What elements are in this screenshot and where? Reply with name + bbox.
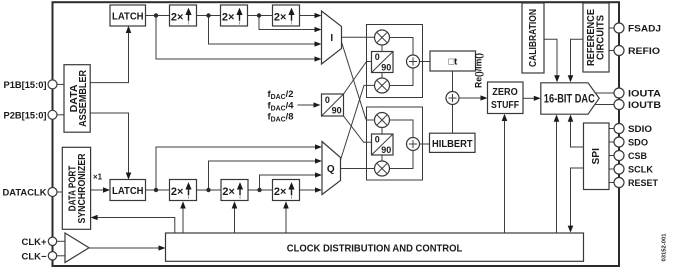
wire: SPI to RESET (609, 182, 614, 184)
wire: zero stuff to DAC (523, 96, 541, 101)
svg-text:IOUTA: IOUTA (628, 89, 661, 100)
wire: clock to Q 2x3 (283, 201, 289, 233)
wire: I row latch to 2x1 (146, 15, 170, 17)
wire: clock to zero stuff (502, 114, 508, 233)
wire: I row 2x3 to mux (300, 13, 322, 18)
interpolation filter 2x I-2 (221, 5, 248, 26)
wire: lower modulator internals (382, 120, 430, 169)
wire: clock feedback to synchronizer (91, 215, 175, 233)
wire: hilbert to mid adder (452, 105, 454, 135)
figure number (662, 233, 668, 262)
svg-text:CSB: CSB (628, 151, 647, 162)
clock input buffer (65, 233, 89, 263)
wire: P1B stub (57, 83, 65, 85)
terminal REFIO (614, 46, 661, 58)
hilbert block (430, 133, 476, 152)
terminal FSADJ (614, 23, 661, 35)
wire: SPI to SDIO (609, 128, 614, 130)
svg-text:Q: Q (327, 164, 335, 175)
svg-text:SDIO: SDIO (628, 124, 653, 135)
svg-text:0: 0 (375, 135, 380, 145)
SPI block (584, 123, 610, 190)
terminal SCLK (614, 164, 653, 176)
node J6 (257, 188, 261, 192)
wire: LO diagonal to lower 0/90 (344, 116, 372, 142)
svg-text:CLK−: CLK− (22, 251, 47, 262)
svg-text:90: 90 (381, 145, 391, 155)
svg-text:□t: □t (448, 57, 458, 68)
wire: reference to DAC (568, 39, 584, 82)
lower modulator enclosure (367, 107, 423, 180)
multiplier M1 (375, 30, 390, 45)
latch U2 (Q path) (110, 180, 146, 201)
svg-text:RESET: RESET (628, 178, 658, 189)
svg-text:SDO: SDO (628, 138, 649, 149)
wire: SPI to SDO (609, 141, 614, 143)
zero stuff block (488, 82, 524, 114)
wire: fDAC select arrow (298, 102, 321, 107)
wire: Q row 2x1 to 2x2 (197, 189, 222, 191)
wire: Q bypass from node J4 (156, 144, 322, 190)
svg-text:16-BIT DAC: 16-BIT DAC (544, 92, 595, 106)
wire: calibration to DAC (544, 39, 560, 82)
delta-t block (430, 51, 476, 71)
wire: I bypass from node J3 (259, 16, 322, 33)
wire: DAC to IOUTB (592, 104, 614, 106)
wire: mux I to upper multiplier (342, 36, 376, 38)
wire: I row 2x2 to 2x3 (248, 15, 273, 17)
svg-text:CIRCUITS: CIRCUITS (596, 15, 607, 60)
fDAC frequency labels (268, 89, 295, 124)
wire: CLK- stub (57, 255, 66, 257)
terminal CSB (614, 151, 647, 163)
svg-text:REFIO: REFIO (628, 46, 661, 57)
wire: Q row 2x2 to 2x3 (248, 189, 273, 191)
svg-text:×1: ×1 (93, 172, 102, 182)
calibration block (522, 3, 544, 73)
latch U1 (I path) (110, 5, 146, 26)
node J4 (154, 188, 158, 192)
wire: SPI to SCLK (609, 168, 614, 170)
svg-text:0: 0 (375, 52, 380, 62)
wire: Q row latch to 2x1 (146, 189, 170, 191)
svg-text:IOUTB: IOUTB (628, 100, 661, 111)
wire: CLK buffer to clock distribution (89, 245, 166, 250)
interpolation filter 2x Q-1 (170, 180, 197, 201)
adder A1 (407, 55, 420, 68)
svg-text:CLOCK DISTRIBUTION AND CONTROL: CLOCK DISTRIBUTION AND CONTROL (287, 244, 463, 255)
interpolation filter 2x Q-2 (221, 180, 248, 201)
wire: Q bypass from node J5 (209, 158, 323, 190)
node J5 (206, 188, 210, 192)
label Re()/Im() (474, 53, 484, 88)
multiplier M3 (375, 113, 390, 128)
16-bit DAC (541, 83, 599, 114)
mux Q (322, 142, 341, 195)
svg-text:CLK+: CLK+ (22, 237, 47, 248)
terminal RESET (614, 178, 658, 190)
upper modulator enclosure (367, 25, 423, 98)
label x1 gain (93, 172, 102, 182)
svg-text:P1B[15:0]: P1B[15:0] (4, 80, 47, 91)
node J3 (257, 13, 261, 17)
svg-text:ZERO: ZERO (492, 86, 518, 98)
svg-text:P2B[15:0]: P2B[15:0] (4, 110, 47, 121)
wire: SPI to DAC (568, 115, 584, 148)
svg-text:CALIBRATION: CALIBRATION (528, 9, 539, 67)
wire: CLK+ stub (57, 240, 66, 242)
svg-text:SCLK: SCLK (628, 165, 653, 176)
adder A3 (446, 92, 459, 105)
interpolation filter 2x I-3 (273, 5, 300, 26)
svg-text:90: 90 (332, 106, 342, 116)
svg-text:HILBERT: HILBERT (432, 138, 473, 150)
wire: Q row 2x3 to mux (300, 187, 323, 192)
svg-text:SYNCHRONIZER: SYNCHRONIZER (77, 153, 88, 224)
terminal P2B (4, 110, 58, 121)
svg-text:I: I (330, 33, 333, 44)
wire: DAC to IOUTA (592, 92, 614, 94)
wire: clock to Q 2x2 (232, 201, 238, 233)
wire: reference to FSADJ (609, 27, 614, 29)
multiplier M2 (375, 78, 390, 93)
wire: P2B stub (57, 114, 65, 116)
svg-text:Re()/Im(): Re()/Im() (474, 53, 484, 88)
wire: reference to REFIO (609, 50, 614, 52)
data assembler (64, 65, 90, 133)
node J2 (206, 13, 210, 17)
terminal P1B (4, 80, 58, 91)
wire: synchronizer to Q latch (91, 187, 110, 193)
terminal DATACLK (3, 188, 58, 199)
wire: clock to DAC (554, 115, 560, 234)
adder A2 (407, 138, 420, 151)
svg-text:SPI: SPI (591, 148, 602, 165)
terminal SDIO (614, 124, 653, 136)
svg-text:03152-001: 03152-001 (662, 233, 668, 262)
svg-text:0: 0 (325, 95, 330, 105)
wire: I bypass from node J2 (209, 16, 322, 47)
interpolation filter 2x Q-3 (273, 180, 300, 201)
wire: upper modulator internals (382, 38, 430, 86)
clock distribution and control block (166, 233, 584, 261)
terminal SDO (614, 137, 649, 149)
node J1 (154, 13, 158, 17)
wire: mux I diagonal to lower modulator (342, 42, 375, 120)
svg-text:LATCH: LATCH (112, 10, 144, 22)
wire: I row 2x1 to 2x2 (197, 15, 221, 17)
wire: I bypass from node J1 (156, 16, 322, 62)
wire: clock to Q 2x1 (180, 201, 186, 233)
terminal CLK- (22, 251, 57, 262)
phase splitter 0/90 LO (322, 94, 344, 116)
wire: Q bypass from node J6 (260, 172, 323, 190)
interpolation filter 2x I-1 (170, 5, 197, 26)
wire: mux Q to lower multiplier (341, 168, 376, 170)
wire: DATACLK stub (57, 191, 63, 193)
wire: SPI to clock distribution (568, 168, 584, 233)
reference circuits block (583, 3, 609, 72)
svg-text:STUFF: STUFF (491, 99, 519, 111)
svg-text:90: 90 (381, 63, 391, 73)
data port synchronizer (62, 147, 90, 229)
wire: SPI to CSB (609, 155, 614, 157)
terminal CLK+ (22, 237, 57, 248)
multiplier M4 (375, 161, 390, 176)
svg-text:LATCH: LATCH (112, 185, 144, 197)
terminal IOUTB (614, 100, 661, 112)
wire: mid adder to zero stuff (459, 95, 488, 100)
wire: data assembler to Q latch (90, 113, 131, 180)
terminal IOUTA (614, 88, 661, 100)
wire: data assembler to I latch (90, 26, 131, 83)
wire: mux Q diagonal to upper modulator (341, 85, 375, 160)
phase splitter 0/90 upper (372, 52, 394, 73)
mux I (322, 11, 342, 64)
wire: LO diagonal to upper 0/90 (344, 62, 372, 95)
svg-text:DATACLK: DATACLK (3, 188, 47, 199)
wire: delta-t to mid adder (452, 71, 454, 92)
svg-text:ASSEMBLER: ASSEMBLER (78, 69, 89, 127)
svg-text:FSADJ: FSADJ (628, 24, 661, 35)
phase splitter 0/90 lower (372, 134, 394, 155)
